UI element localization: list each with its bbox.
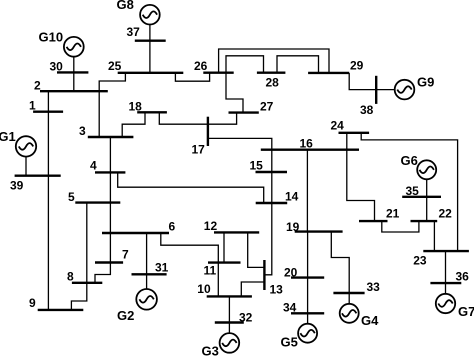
bus 33	[333, 292, 364, 294]
wire G6-35-22	[426, 179, 428, 221]
generator G6	[417, 160, 436, 179]
svg-text:38: 38	[360, 103, 374, 117]
svg-text:25: 25	[108, 59, 122, 73]
svg-text:33: 33	[367, 280, 381, 294]
wire 2-25	[99, 73, 125, 91]
wire 24-16	[346, 133, 348, 150]
bus 28	[257, 71, 286, 73]
wire 22-23	[433, 221, 435, 251]
svg-text:G8: G8	[117, 0, 134, 12]
wire 3-18	[122, 112, 145, 137]
bus 8	[72, 282, 102, 284]
wire 6-11	[161, 233, 219, 263]
svg-text:26: 26	[194, 59, 208, 73]
wire 16-21	[347, 150, 375, 221]
bus 24	[339, 132, 370, 134]
bus 18	[137, 111, 167, 113]
svg-text:30: 30	[50, 59, 64, 73]
wire 4-14	[118, 172, 264, 203]
bus 38 vertical	[375, 76, 377, 104]
wire 23-36-G7	[445, 251, 447, 294]
wire 26-28 inner loop	[226, 56, 264, 73]
wire 19-20-34-G5	[307, 232, 309, 324]
bus 14	[256, 202, 288, 204]
bus 31	[132, 273, 167, 275]
generator G5	[298, 324, 317, 343]
svg-text:32: 32	[239, 310, 253, 324]
svg-text:1: 1	[29, 98, 36, 112]
svg-text:10: 10	[197, 282, 211, 296]
bus 16	[261, 148, 359, 150]
svg-text:G6: G6	[401, 153, 418, 168]
bus 10	[207, 295, 252, 297]
bus 12	[214, 231, 259, 233]
svg-text:20: 20	[284, 265, 298, 279]
svg-text:11: 11	[204, 264, 217, 278]
svg-text:8: 8	[67, 269, 74, 283]
bus 32	[215, 321, 244, 323]
svg-text:18: 18	[129, 100, 143, 114]
svg-text:15: 15	[250, 159, 264, 173]
svg-text:12: 12	[204, 219, 218, 233]
generator G4	[340, 304, 359, 323]
svg-text:29: 29	[350, 58, 364, 72]
svg-text:34: 34	[283, 300, 297, 314]
svg-text:3: 3	[79, 124, 86, 138]
svg-text:G4: G4	[361, 313, 379, 328]
svg-text:2: 2	[34, 79, 41, 93]
wire 21-22	[382, 221, 419, 232]
svg-text:16: 16	[300, 137, 314, 151]
wire 12-11	[223, 232, 225, 262]
wire 2-1-39-9	[47, 91, 49, 310]
svg-text:G1: G1	[0, 129, 16, 144]
bus 26	[203, 71, 233, 73]
bus 36	[430, 282, 461, 284]
wire 11-10	[217, 263, 219, 297]
svg-text:4: 4	[90, 158, 97, 172]
svg-text:G3: G3	[202, 344, 219, 356]
wire 2-3	[98, 91, 100, 137]
generator G9	[395, 80, 415, 100]
svg-text:22: 22	[439, 207, 453, 221]
svg-text:24: 24	[331, 119, 345, 133]
generator G8	[140, 5, 160, 25]
wire 26-27	[226, 73, 243, 113]
wire 10-32-G3	[228, 296, 230, 333]
wire 12-13	[248, 232, 265, 267]
wire 18-17	[159, 112, 208, 124]
wire G10 to bus 30 to bus 2	[73, 57, 75, 91]
bus 37	[135, 40, 166, 42]
bus 35	[402, 196, 441, 198]
bus 23	[423, 250, 469, 252]
wire 5-8	[86, 203, 88, 283]
bus 1	[33, 110, 63, 112]
svg-text:13: 13	[270, 283, 284, 297]
wire 8-9	[71, 283, 86, 310]
wire 10-13	[241, 282, 264, 296]
svg-text:37: 37	[127, 25, 141, 39]
svg-text:23: 23	[413, 253, 427, 267]
bus 15	[256, 171, 288, 173]
bus 2	[40, 90, 108, 92]
bus 9	[38, 309, 84, 311]
bus 19	[295, 230, 343, 232]
svg-text:21: 21	[386, 207, 400, 221]
svg-text:9: 9	[29, 296, 36, 310]
svg-text:39: 39	[10, 179, 24, 193]
wire 7-8	[95, 263, 110, 283]
svg-text:5: 5	[68, 190, 75, 204]
wire 6-31-G2	[146, 233, 148, 290]
svg-text:14: 14	[285, 190, 299, 204]
bus 11	[208, 261, 241, 263]
bus 5	[75, 201, 120, 203]
svg-text:27: 27	[260, 100, 274, 114]
bus 6	[102, 232, 169, 234]
svg-text:36: 36	[456, 270, 470, 284]
svg-text:31: 31	[155, 260, 169, 274]
bus 39	[15, 174, 61, 176]
wire 24-23	[361, 133, 457, 251]
wire 28-29 inner loop	[277, 56, 319, 73]
svg-text:G10: G10	[39, 30, 64, 45]
wire 3-4-5-6-7	[109, 137, 111, 263]
svg-text:35: 35	[406, 184, 420, 198]
bus 27	[229, 111, 259, 113]
svg-text:17: 17	[192, 143, 206, 157]
svg-text:6: 6	[169, 219, 176, 233]
svg-text:G2: G2	[117, 308, 134, 323]
wire 17-27	[208, 113, 237, 125]
bus 13 vertical	[263, 260, 265, 290]
bus 7	[95, 261, 123, 263]
wire 16-19	[306, 150, 308, 232]
wire G8 to bus 37 to bus 25	[149, 25, 151, 73]
svg-text:G9: G9	[417, 75, 434, 90]
wire 29-38-G9	[349, 73, 395, 90]
bus 30	[57, 71, 88, 73]
generator G2	[136, 289, 157, 310]
bus 25	[118, 72, 184, 74]
bus 17 vertical	[207, 117, 209, 146]
bus 22	[411, 220, 438, 222]
generator G3	[220, 333, 240, 353]
generator G7	[436, 294, 455, 313]
bus 4	[95, 171, 125, 173]
wire 25-26	[175, 73, 209, 82]
svg-text:7: 7	[122, 248, 129, 262]
bus 29	[308, 72, 349, 74]
bus 21	[359, 220, 388, 222]
generator G10	[64, 37, 84, 57]
wire 26-29 outer loop	[219, 49, 329, 73]
generator G1	[16, 136, 36, 156]
svg-text:28: 28	[266, 75, 280, 89]
wire 17-16-15-14-13	[208, 138, 272, 274]
bus 3	[88, 136, 134, 138]
bus 34	[291, 312, 324, 314]
bus 20	[291, 276, 324, 278]
svg-text:19: 19	[286, 220, 300, 234]
wire G1 to bus 39	[25, 156, 27, 176]
wire 19-33-G4	[331, 232, 349, 304]
svg-text:G7: G7	[458, 304, 474, 319]
svg-text:G5: G5	[281, 335, 298, 350]
